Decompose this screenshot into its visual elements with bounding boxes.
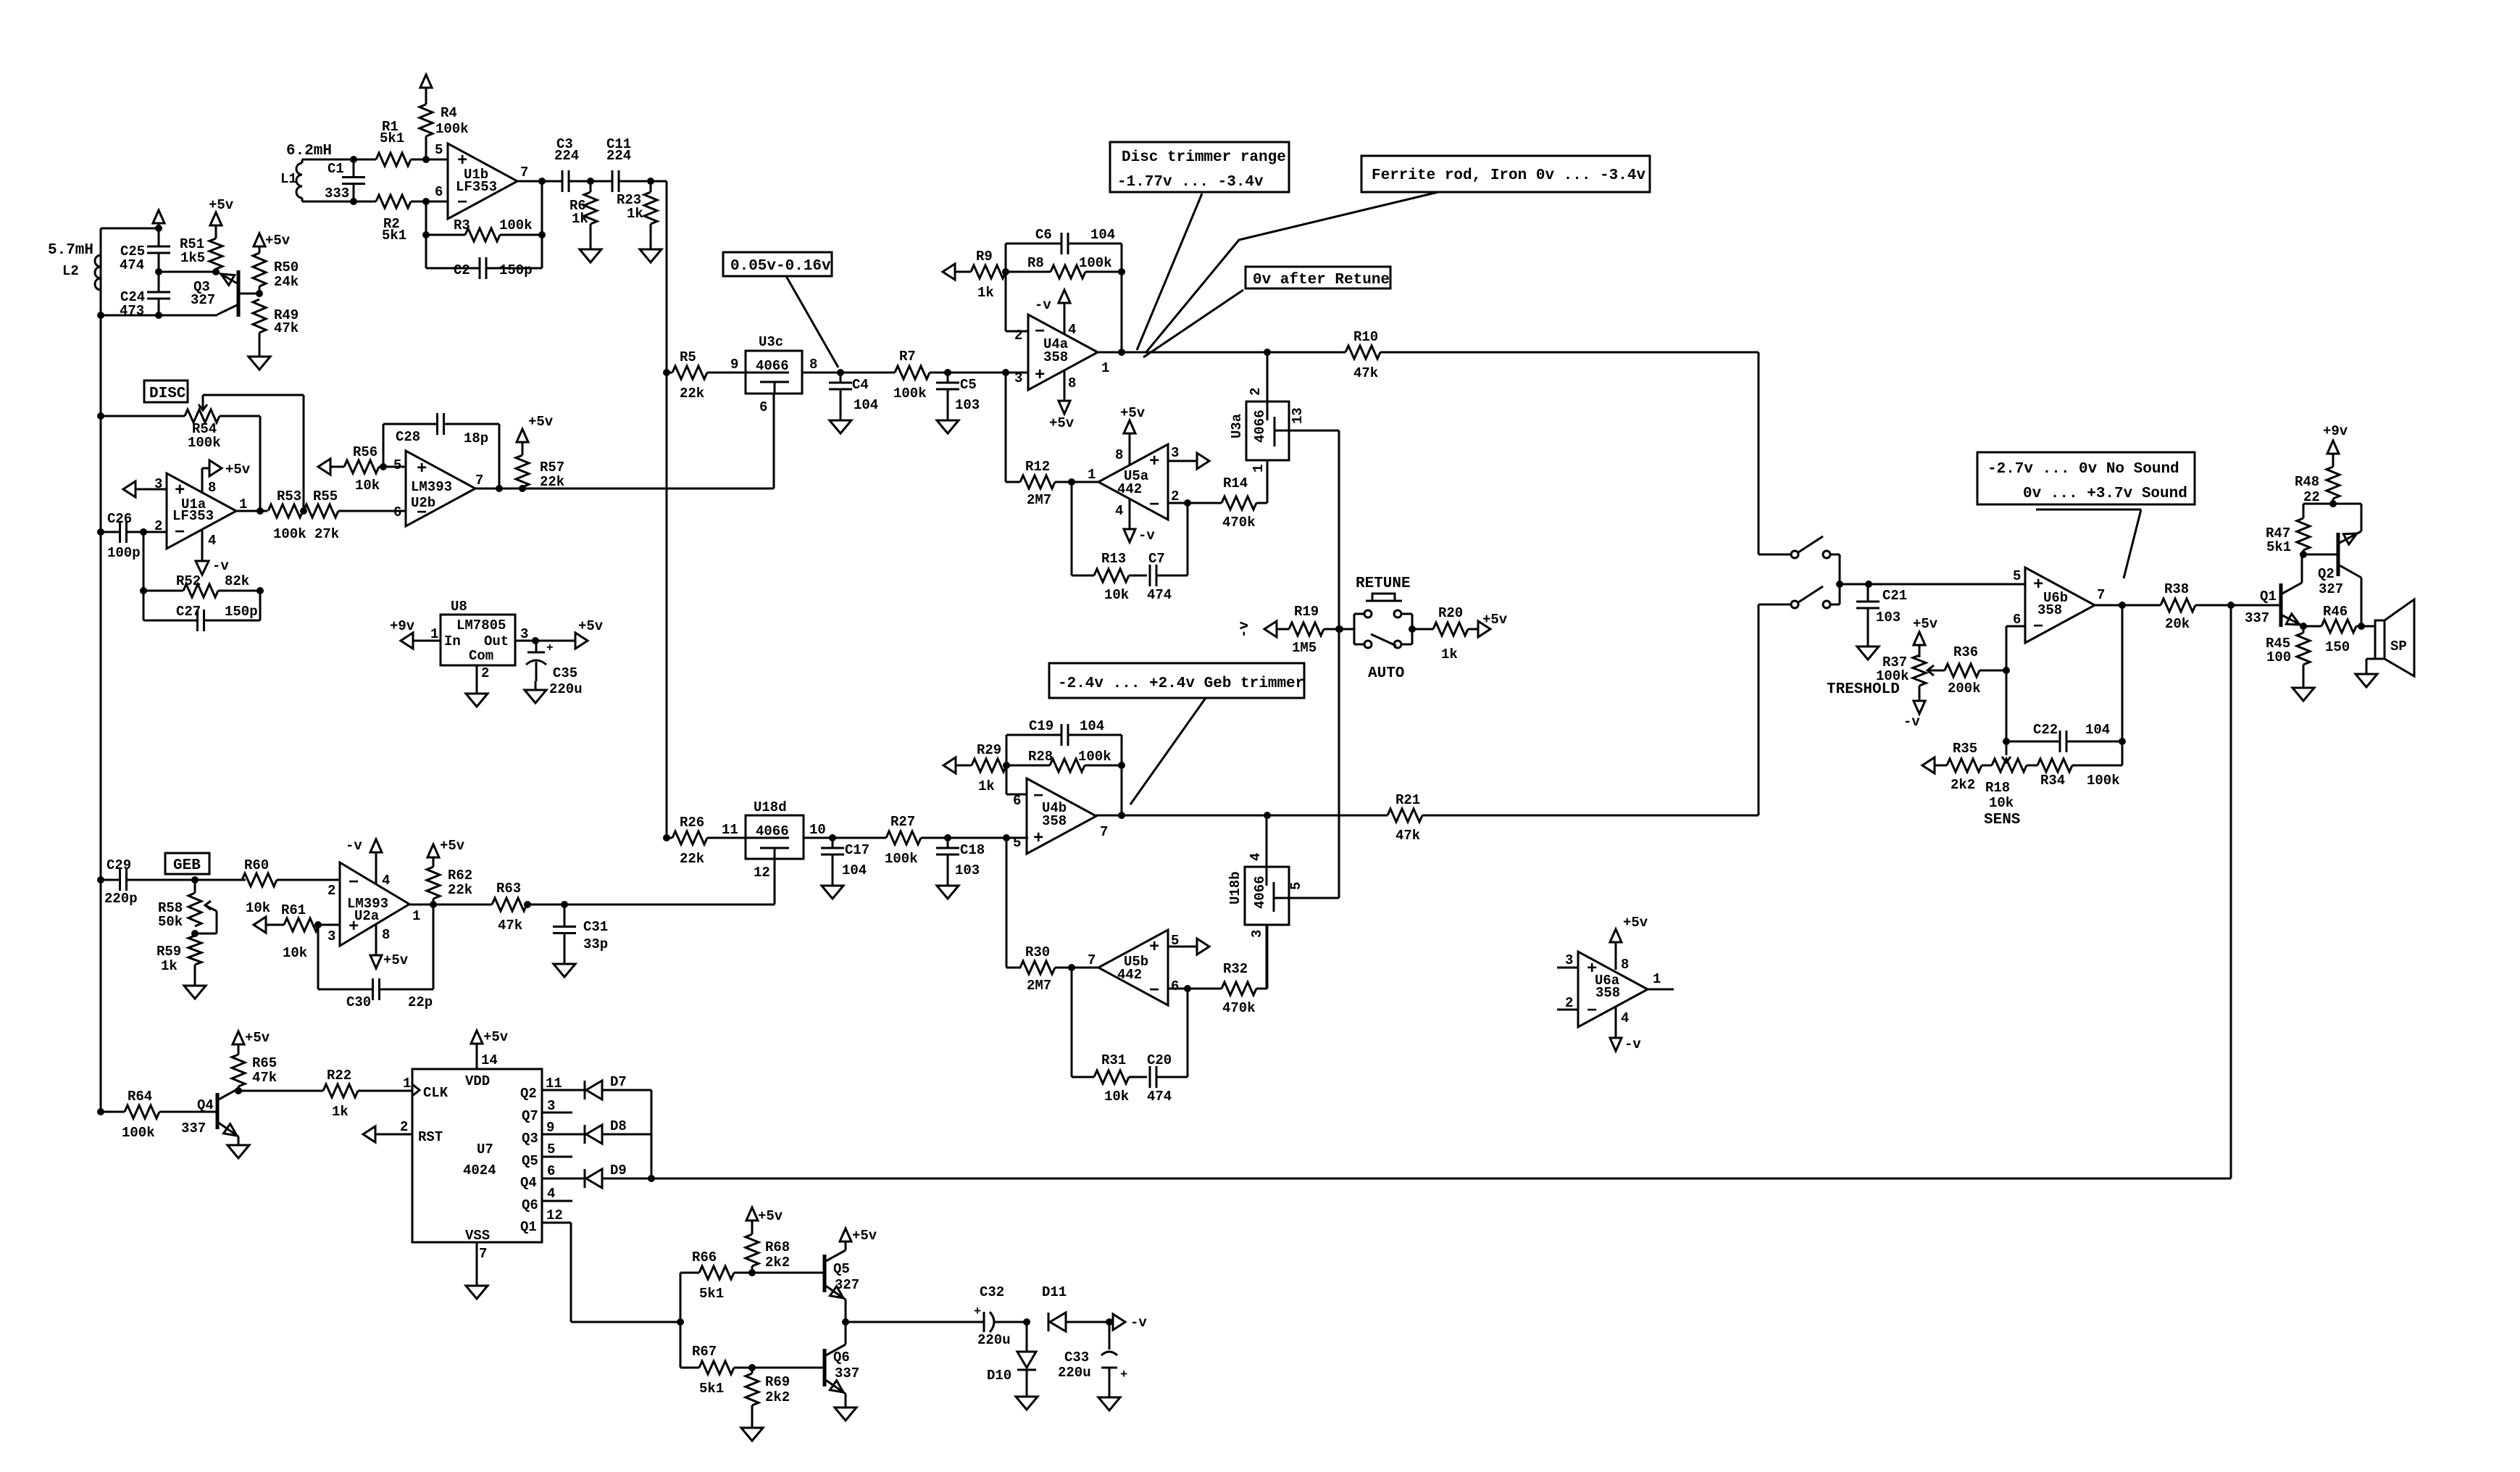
ground [2292, 679, 2314, 701]
power +5v [840, 1228, 877, 1244]
svg-text:U7: U7 [477, 1142, 493, 1157]
power arrow [420, 75, 432, 88]
svg-text:337: 337 [835, 1365, 859, 1381]
svg-text:103: 103 [1876, 610, 1901, 625]
svg-text:358: 358 [1595, 985, 1620, 1001]
callout leader [1137, 194, 1202, 350]
wire [409, 904, 492, 906]
svg-text:22k: 22k [448, 882, 472, 898]
svg-text:220p: 220p [104, 891, 138, 907]
svg-text:1k: 1k [572, 211, 588, 227]
junction [430, 901, 437, 908]
resistor R69 [746, 1368, 790, 1419]
wire [100, 228, 102, 315]
svg-text:6: 6 [547, 1163, 555, 1179]
ground [554, 955, 575, 977]
svg-text:358: 358 [2037, 602, 2062, 618]
resistor R6 [569, 181, 597, 241]
svg-text:11: 11 [722, 822, 738, 838]
callout geb trimmer [1049, 663, 1304, 698]
svg-text:+5v: +5v [852, 1228, 877, 1244]
svg-text:R46: R46 [2323, 604, 2348, 620]
ground [466, 1277, 488, 1299]
junction [97, 1108, 104, 1115]
svg-text:4: 4 [382, 873, 390, 889]
svg-text:+5v: +5v [225, 462, 251, 478]
svg-text:12: 12 [754, 865, 770, 881]
svg-text:358: 358 [1042, 813, 1067, 829]
svg-text:10: 10 [809, 822, 826, 838]
svg-text:104: 104 [2085, 722, 2110, 738]
ground [640, 241, 662, 262]
resistor R31 [1072, 1052, 1147, 1105]
svg-text:3: 3 [1014, 370, 1022, 386]
svg-text:8: 8 [208, 480, 216, 496]
wire [425, 201, 427, 235]
svg-text:R4: R4 [441, 105, 457, 121]
wire [602, 1134, 651, 1136]
resistor R29 [972, 742, 1006, 794]
capacitor C32 [974, 1284, 1027, 1348]
svg-text:R12: R12 [1025, 459, 1050, 475]
diode D9 [585, 1163, 627, 1188]
junction [1068, 964, 1075, 971]
transistor Q5 [825, 1242, 859, 1322]
potentiometer R18 [1982, 741, 2037, 811]
svg-text:R9: R9 [976, 249, 993, 265]
wire [1121, 272, 1123, 352]
wire [259, 416, 262, 511]
wire [100, 315, 102, 1112]
wire [1267, 352, 1269, 402]
svg-text:2k2: 2k2 [1951, 777, 1975, 793]
svg-text:1k: 1k [1441, 646, 1458, 662]
wire [2195, 604, 2281, 607]
resistor R56 [330, 444, 406, 494]
junction [422, 156, 430, 163]
resistor R64 [101, 1089, 217, 1141]
svg-text:7: 7 [1100, 824, 1108, 840]
junction [1106, 1318, 1113, 1326]
capacitor C2 [426, 257, 542, 279]
svg-text:+: + [1149, 938, 1159, 957]
power +5v [202, 460, 251, 493]
capacitor C24 [120, 272, 170, 319]
svg-text:L2: L2 [62, 263, 79, 279]
wire [1026, 1322, 1028, 1352]
wire [1006, 794, 1027, 796]
junction [1023, 1318, 1030, 1326]
resistor R28 [1006, 749, 1122, 772]
svg-text:100k: 100k [273, 526, 306, 542]
transistor Q4 [181, 1089, 238, 1136]
svg-text:R19: R19 [1294, 604, 1319, 620]
wire [1267, 460, 1269, 503]
svg-text:220u: 220u [549, 681, 583, 697]
capacitor C7 [1147, 551, 1188, 603]
junction [663, 834, 670, 841]
resistor R22 [323, 1068, 412, 1120]
svg-text:24k: 24k [274, 274, 299, 290]
ground [228, 1136, 249, 1158]
junction [587, 178, 594, 185]
svg-text:22k: 22k [680, 386, 704, 402]
svg-text:1k: 1k [978, 778, 995, 794]
callout leader [1146, 192, 1438, 353]
svg-text:10k: 10k [1104, 1089, 1129, 1105]
op-amp U2a [327, 862, 420, 946]
svg-text:R30: R30 [1025, 944, 1050, 960]
capacitor C28 [383, 413, 499, 446]
capacitor C25 [120, 228, 170, 273]
callout 0v after retune [1246, 267, 1390, 288]
wire [433, 905, 435, 989]
resistor R48 [2295, 467, 2340, 505]
resistor R20 [1433, 605, 1478, 662]
analog switch U18b [1227, 853, 1304, 938]
svg-text:C33: C33 [1064, 1350, 1089, 1365]
wire [1026, 1370, 1028, 1388]
svg-text:C26: C26 [107, 511, 132, 527]
wire [2006, 625, 2025, 628]
resistor R32 [1222, 925, 1267, 1016]
junction [350, 156, 357, 163]
svg-text:C21: C21 [1882, 588, 1907, 604]
svg-text:100k: 100k [1079, 255, 1112, 271]
svg-text:LM7805: LM7805 [456, 618, 506, 633]
svg-text:4: 4 [1115, 503, 1123, 519]
svg-text:4024: 4024 [463, 1163, 496, 1178]
power +9v [2323, 423, 2348, 467]
rail +5v [551, 618, 604, 649]
svg-text:R14: R14 [1223, 475, 1248, 491]
svg-text:+9v: +9v [2323, 423, 2348, 439]
wire [2095, 604, 2161, 607]
svg-text:-v: -v [212, 558, 229, 574]
rail arrow [943, 757, 972, 773]
resistor R10 [1288, 329, 1758, 381]
svg-text:−: − [349, 873, 359, 893]
wire [354, 159, 376, 161]
svg-text:1: 1 [1251, 465, 1267, 473]
svg-text:R59: R59 [157, 944, 181, 960]
svg-text:2M7: 2M7 [1027, 492, 1051, 508]
wire [569, 180, 612, 183]
svg-text:C18: C18 [960, 842, 985, 858]
svg-text:R5: R5 [680, 349, 696, 365]
svg-text:22k: 22k [540, 474, 564, 490]
svg-text:358: 358 [1043, 349, 1068, 365]
svg-text:C17: C17 [845, 842, 869, 858]
svg-text:0v after Retune: 0v after Retune [1253, 272, 1390, 288]
svg-text:Q1: Q1 [520, 1219, 537, 1235]
junction [1118, 762, 1125, 769]
svg-text:R8: R8 [1027, 255, 1044, 271]
svg-text:8: 8 [1068, 375, 1076, 391]
ground [1016, 1388, 1038, 1410]
svg-text:14: 14 [481, 1052, 498, 1068]
svg-text:5: 5 [435, 142, 443, 158]
wire [1066, 1321, 1109, 1323]
svg-text:CLK: CLK [423, 1085, 448, 1101]
svg-text:3: 3 [1171, 445, 1179, 461]
svg-text:−: − [457, 194, 467, 213]
resistor R2 [376, 195, 411, 244]
svg-text:R61: R61 [281, 902, 306, 918]
wire [1168, 502, 1222, 504]
svg-text:VDD: VDD [465, 1073, 490, 1089]
resistor R21 [1267, 792, 1758, 844]
svg-text:Q4: Q4 [520, 1175, 537, 1191]
rail arrow [254, 917, 284, 933]
power +5v [233, 1030, 270, 1046]
power +5v [209, 197, 234, 225]
svg-text:12: 12 [546, 1207, 563, 1223]
wire [1006, 244, 1122, 272]
svg-text:10k: 10k [355, 478, 380, 494]
svg-text:Com: Com [469, 648, 493, 664]
capacitor C33 [1058, 1322, 1127, 1389]
power -v [1610, 1007, 1641, 1052]
resistor R30 [1006, 944, 1098, 994]
junction [519, 485, 526, 492]
wire [2303, 554, 2338, 556]
wire [651, 1090, 653, 1178]
wire [1187, 503, 1189, 575]
junction [647, 178, 654, 185]
junction [1002, 268, 1009, 275]
resistor R1 [376, 119, 411, 166]
svg-text:-v: -v [346, 838, 362, 854]
wire [1006, 735, 1122, 765]
svg-text:100k: 100k [188, 435, 221, 451]
callout disc trimmer [1110, 142, 1289, 192]
label GEB [165, 853, 209, 874]
junction [2119, 738, 2126, 745]
svg-text:150p: 150p [499, 262, 533, 278]
rail arrow [1922, 757, 1947, 773]
resistor R63 [492, 881, 775, 933]
wire [1289, 897, 1339, 899]
svg-text:+: + [2033, 575, 2043, 595]
resistor R7 [840, 349, 1028, 402]
wire [425, 235, 427, 268]
svg-text:U3a: U3a [1229, 414, 1245, 438]
svg-text:2k2: 2k2 [765, 1255, 790, 1271]
junction [538, 231, 546, 238]
wire [542, 1134, 585, 1136]
svg-text:Q3: Q3 [522, 1131, 538, 1147]
svg-text:R53: R53 [277, 488, 301, 504]
potentiometer R54 [185, 395, 304, 507]
ground [830, 412, 851, 433]
svg-text:100k: 100k [893, 386, 927, 402]
ground [466, 685, 488, 707]
callout 0.05-0.16 [723, 252, 832, 276]
ground [249, 348, 270, 370]
svg-text:R31: R31 [1101, 1052, 1126, 1068]
svg-text:VSS: VSS [465, 1228, 490, 1244]
resistor R53 [268, 488, 306, 542]
svg-text:D7: D7 [610, 1074, 627, 1090]
svg-text:TRESHOLD: TRESHOLD [1827, 681, 1900, 698]
junction [648, 1175, 655, 1182]
svg-text:In: In [444, 633, 461, 649]
junction [97, 876, 104, 883]
wire [411, 201, 448, 203]
svg-text:4066: 4066 [756, 823, 789, 839]
svg-text:5.7mH: 5.7mH [48, 242, 93, 259]
junction [1336, 625, 1343, 633]
wire [394, 510, 406, 512]
resistor R55 [304, 488, 406, 542]
wire [804, 837, 1028, 839]
power arrow [153, 210, 164, 228]
resistor R51 [180, 225, 222, 272]
wire [1168, 988, 1222, 990]
svg-text:100p: 100p [107, 545, 141, 561]
potentiometer R58 [158, 880, 217, 933]
inductor L1 [280, 143, 332, 201]
junction [1003, 762, 1010, 769]
junction [1865, 581, 1872, 588]
svg-text:R28: R28 [1028, 749, 1053, 765]
svg-text:C27: C27 [176, 604, 201, 620]
wire [752, 1272, 825, 1274]
svg-text:-1.77v ... -3.4v: -1.77v ... -3.4v [1117, 174, 1264, 191]
resistor R52 [143, 573, 260, 597]
diode D11 [1042, 1284, 1067, 1331]
transistor Q6 [825, 1322, 859, 1399]
svg-text:C29: C29 [107, 857, 131, 873]
power -v [346, 838, 382, 884]
resistor R27 [885, 814, 921, 867]
wire [383, 424, 385, 467]
svg-text:4: 4 [1621, 1010, 1629, 1026]
svg-text:8: 8 [1115, 447, 1123, 463]
wire [542, 1223, 680, 1322]
wire [1071, 482, 1073, 575]
svg-text:-v: -v [1903, 714, 1920, 730]
wire [143, 532, 145, 591]
junction [748, 1269, 756, 1276]
wire [1006, 838, 1008, 968]
svg-text:R13: R13 [1101, 551, 1126, 567]
label SENS [1984, 812, 2020, 828]
junction [1003, 834, 1010, 841]
transistor Q3 [191, 270, 259, 317]
svg-text:18p: 18p [464, 431, 488, 446]
svg-text:R38: R38 [2164, 581, 2189, 597]
svg-text:U2a: U2a [354, 908, 379, 924]
resistor R5 [672, 349, 746, 402]
callout leader [1143, 290, 1243, 357]
resistor R45 [2266, 626, 2310, 679]
svg-text:224: 224 [554, 148, 579, 164]
svg-text:6.2mH: 6.2mH [286, 143, 332, 159]
wire [1266, 925, 1268, 989]
rail -v [1236, 621, 1277, 638]
svg-text:U8: U8 [451, 599, 467, 615]
svg-text:Q5: Q5 [522, 1153, 538, 1169]
svg-text:GEB: GEB [173, 857, 201, 874]
wire [517, 180, 562, 183]
rail arrow [318, 459, 330, 475]
svg-text:3: 3 [1565, 952, 1573, 968]
svg-text:R68: R68 [765, 1239, 790, 1255]
signal arrow pin5 [1168, 939, 1209, 955]
svg-text:7: 7 [475, 473, 483, 488]
svg-text:100k: 100k [435, 121, 469, 137]
power -v [1035, 290, 1070, 334]
svg-text:6: 6 [393, 504, 401, 520]
svg-text:333: 333 [325, 186, 349, 201]
capacitor C27 [143, 604, 260, 631]
svg-text:L1: L1 [280, 171, 297, 187]
resistor R49 [253, 299, 299, 348]
svg-text:R69: R69 [765, 1374, 790, 1390]
svg-text:9: 9 [730, 357, 738, 373]
wire [411, 159, 448, 161]
junction [1184, 985, 1191, 992]
svg-text:4: 4 [547, 1186, 555, 1202]
svg-text:+: + [974, 1305, 981, 1319]
svg-text:C35: C35 [553, 665, 577, 681]
wire [1758, 604, 1760, 815]
junction [2003, 667, 2010, 674]
svg-text:1: 1 [412, 908, 420, 924]
junction [677, 1318, 684, 1326]
svg-text:-v: -v [1035, 297, 1051, 313]
svg-text:5k1: 5k1 [382, 228, 406, 244]
resistor R62 [427, 857, 472, 905]
svg-text:+5v: +5v [1623, 915, 1648, 931]
svg-text:7: 7 [520, 165, 528, 180]
svg-text:0v ... +3.7v Sound: 0v ... +3.7v Sound [2023, 486, 2187, 502]
rail arrow [943, 264, 971, 280]
rail +9v [390, 618, 441, 649]
junction [2329, 500, 2337, 507]
wire [476, 1242, 478, 1277]
wire [159, 271, 218, 273]
svg-text:R60: R60 [244, 857, 269, 873]
junction [944, 834, 951, 841]
junction [235, 1087, 242, 1094]
svg-text:+5v: +5v [1120, 405, 1146, 421]
wire [542, 1112, 572, 1114]
svg-text:1: 1 [1088, 467, 1096, 483]
svg-text:+5v: +5v [265, 233, 291, 249]
ground [741, 1419, 763, 1441]
op-amp U1b [435, 142, 528, 219]
svg-text:C19: C19 [1029, 718, 1054, 734]
callout sound [1977, 452, 2195, 504]
svg-text:D11: D11 [1042, 1284, 1067, 1300]
junction [561, 901, 568, 908]
svg-text:Ferrite rod, Iron 0v ... -3.4v: Ferrite rod, Iron 0v ... -3.4v [1372, 167, 1645, 184]
op-amp U4a [1014, 315, 1109, 391]
svg-text:5k1: 5k1 [699, 1381, 724, 1397]
svg-text:0.05v-0.16v: 0.05v-0.16v [730, 258, 831, 275]
diode D8 [585, 1118, 627, 1144]
svg-text:1k: 1k [627, 206, 643, 222]
svg-text:5: 5 [2013, 568, 2021, 584]
callout ferrite [1361, 156, 1650, 192]
wire [1266, 815, 1268, 867]
wire [542, 1200, 572, 1202]
svg-text:R52: R52 [176, 573, 201, 589]
svg-text:R35: R35 [1953, 741, 1977, 757]
